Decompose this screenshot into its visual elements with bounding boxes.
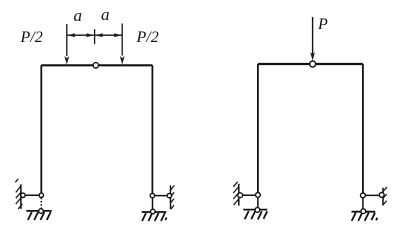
svg-text:P/2: P/2	[20, 29, 43, 46]
svg-text:a: a	[101, 5, 110, 24]
svg-text:P: P	[317, 16, 328, 33]
svg-text:a: a	[74, 6, 83, 25]
svg-text:P/2: P/2	[136, 29, 159, 46]
